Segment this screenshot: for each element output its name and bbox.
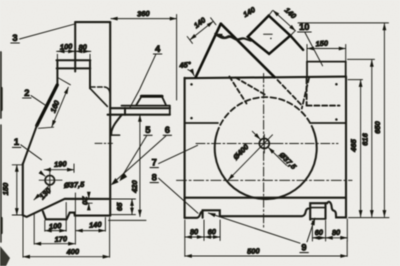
callout 2 <box>23 87 47 106</box>
svg-text:6: 6 <box>165 124 170 135</box>
svg-text:9: 9 <box>301 241 306 252</box>
callout 1 <box>12 136 41 160</box>
front view: lower centerline (side-hole axis) <box>177 179 353 181</box>
callout 10 <box>298 21 323 66</box>
side view: hole centerlines <box>39 168 62 194</box>
scan artifact: bottom-left smudge <box>0 246 10 266</box>
callout 3 <box>11 24 76 43</box>
front view: inclined arm falling edge <box>221 24 275 77</box>
front view: horizontal centerline through hole <box>196 143 338 145</box>
side view: front hole centerline tick on right edge <box>95 142 113 144</box>
dimension 150 (block) <box>307 45 346 62</box>
callout 4 <box>130 43 162 108</box>
dimension 100 (notch) <box>45 203 66 232</box>
callout 9 <box>208 213 315 253</box>
dimension 150 (left height) <box>12 165 23 215</box>
svg-text:360: 360 <box>137 9 151 19</box>
svg-text:80: 80 <box>78 42 88 52</box>
svg-text:150: 150 <box>1 182 10 195</box>
svg-text:45°: 45° <box>178 60 191 70</box>
svg-text:65: 65 <box>115 202 124 211</box>
front view: hidden arm edges in body (dashed) <box>229 77 309 109</box>
svg-text:1: 1 <box>14 136 19 147</box>
svg-text:190: 190 <box>54 159 68 169</box>
svg-text:20: 20 <box>81 195 90 205</box>
dimension 616 <box>371 60 373 217</box>
front view: big circle hidden top arc (dashed) <box>217 97 313 133</box>
dimension 360 (top) <box>111 15 177 101</box>
svg-text:7: 7 <box>152 156 157 167</box>
dimension 190 (to hole) <box>44 164 74 172</box>
svg-text:60: 60 <box>207 227 217 237</box>
svg-text:170: 170 <box>54 234 68 244</box>
front view: corner dots <box>190 83 337 121</box>
svg-text:400: 400 <box>65 247 80 257</box>
svg-text:3: 3 <box>12 32 17 43</box>
svg-text:500: 500 <box>247 246 261 256</box>
svg-text:5: 5 <box>145 124 150 135</box>
dimension 100|80 (column top) <box>57 51 91 60</box>
front view: top-right block <box>307 62 346 78</box>
svg-text:80: 80 <box>190 227 200 237</box>
dimension 20 (base step) <box>86 193 93 208</box>
svg-text:100: 100 <box>60 42 74 52</box>
dimension 140 (base pad) <box>75 193 105 244</box>
dimension D37.5 arrow pair at hole <box>252 131 260 139</box>
dimension 420 (arm height) <box>109 115 147 220</box>
front view: horizontal line y=123 (behind circle) <box>185 122 346 124</box>
dimension 650 <box>383 24 385 217</box>
dimension 140 (left, inclined) <box>187 18 216 44</box>
svg-text:Ø37,5: Ø37,5 <box>64 180 86 190</box>
front view: 140x140 pad (rotated square) <box>248 16 290 54</box>
front view: center hole D37.5 <box>259 139 269 149</box>
svg-text:2: 2 <box>24 87 29 98</box>
svg-text:8: 8 <box>152 171 157 182</box>
dimension D37.5 line <box>268 148 286 166</box>
side view: tall inclined-arm part top <box>75 22 110 216</box>
dimension 80|60 (left feet) <box>185 220 220 256</box>
svg-text:100: 100 <box>49 221 63 231</box>
svg-text:60: 60 <box>314 228 324 238</box>
leader arrow at side hole <box>40 172 45 176</box>
side view: left edge and base outline <box>23 164 110 220</box>
front view: horizontal line above base <box>185 197 346 199</box>
scan artifact: left border streak <box>0 52 3 242</box>
dimension 140 (right, along pad edge) <box>269 10 296 35</box>
callout 5 <box>119 124 152 183</box>
callout 6 <box>111 124 172 185</box>
dimension 500 (overall) <box>185 241 347 256</box>
callout 7 <box>150 145 198 167</box>
front view: vertical centerline <box>263 74 265 228</box>
center hole crosshair <box>255 135 273 154</box>
dimension 65 (base height) <box>110 199 136 215</box>
front view: hidden slot under block (dashed) <box>307 79 340 106</box>
dimension D400 radial line <box>228 135 272 180</box>
front view: bottom outline with feet <box>185 202 346 220</box>
svg-text:650: 650 <box>373 120 382 133</box>
svg-text:420: 420 <box>130 179 139 193</box>
svg-text:465: 465 <box>349 138 358 152</box>
svg-text:80: 80 <box>332 228 342 238</box>
dimension 60|80 (right feet) <box>312 219 347 241</box>
dimension 160 (inclined face) <box>39 78 71 128</box>
side view: column top outline <box>57 22 91 88</box>
dimension 170 <box>34 214 75 245</box>
front view: body rectangle <box>185 77 346 218</box>
side view: horizontal arm with trapezoid boss <box>108 96 170 115</box>
side view: hidden step (dashed) and corner behind column <box>90 87 110 106</box>
side view: web fillet under arm <box>110 115 122 135</box>
svg-text:616: 616 <box>360 132 369 145</box>
svg-text:10: 10 <box>299 21 309 32</box>
dimension 465 <box>360 80 362 217</box>
right side extension lines <box>298 23 389 218</box>
angle 45 deg annotation <box>188 70 194 76</box>
dimension 140 (middle, wavy leader) <box>215 34 251 42</box>
front view: big circle D400 solid lower arc <box>215 129 317 199</box>
callout 8 <box>150 171 198 213</box>
front view: edge from pad right corner <box>290 36 303 50</box>
pad centermark <box>264 34 273 39</box>
dimension 130 (to slant) <box>34 186 49 200</box>
dimension 400 (overall base) <box>23 217 110 258</box>
svg-text:4: 4 <box>155 43 161 54</box>
side view: inclined face (emphasized edge) <box>23 85 57 164</box>
side view: hole circle D37.5 <box>45 176 54 185</box>
svg-text:140: 140 <box>89 220 103 230</box>
svg-text:150: 150 <box>315 38 329 48</box>
front view: inclined arm rising edge <box>196 24 221 78</box>
